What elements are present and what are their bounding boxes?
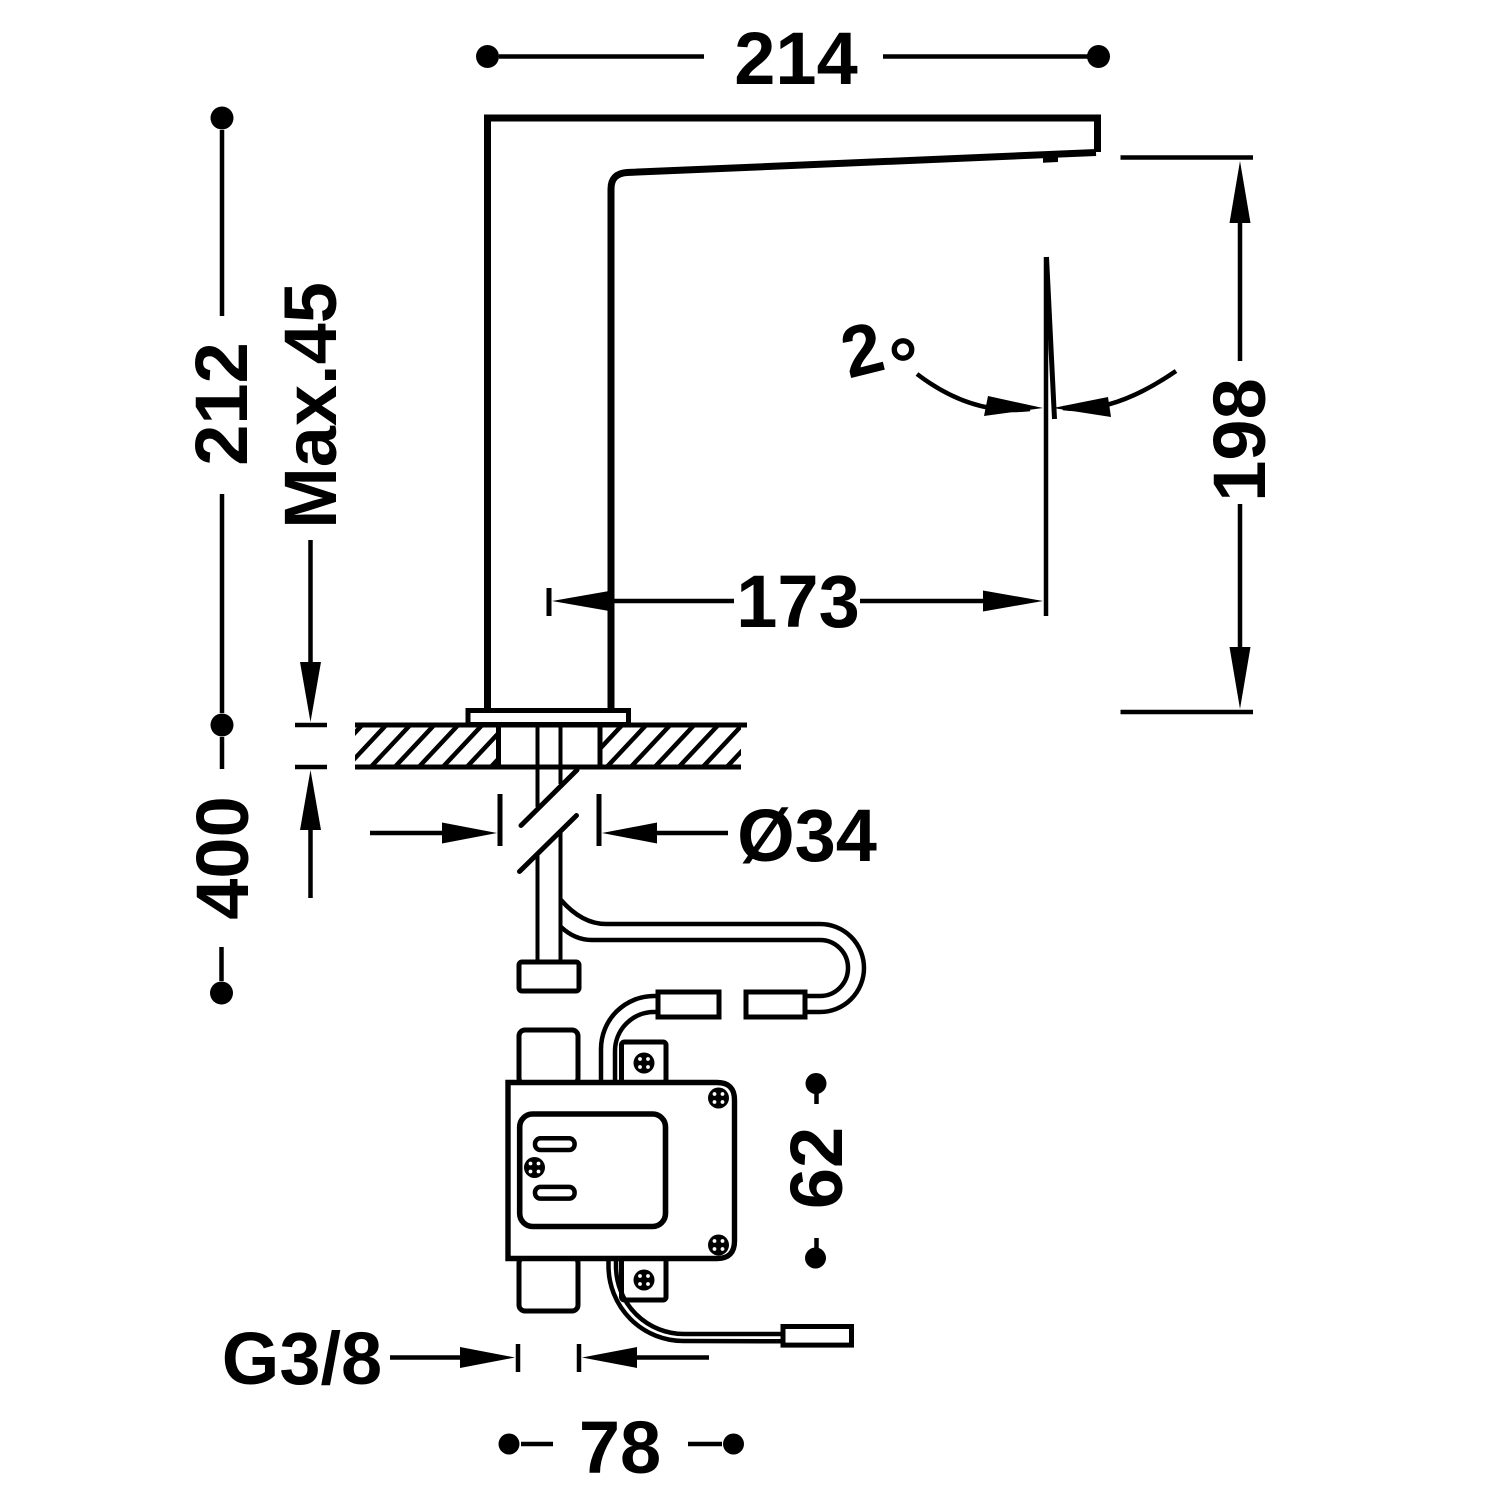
bottom hose from box <box>609 1258 789 1341</box>
angle arc right <box>1063 371 1176 409</box>
svg-text:G3/8: G3/8 <box>222 1317 382 1400</box>
svg-text:Max.45: Max.45 <box>269 282 352 529</box>
countertop bottom line <box>355 765 741 770</box>
svg-text:198: 198 <box>1198 378 1281 501</box>
supply pipe G3/8 rod <box>538 725 561 962</box>
dimension 212 left <box>180 107 263 737</box>
dimension 78 <box>499 1406 745 1489</box>
angle arc right arrowhead <box>1053 397 1111 417</box>
2 deg degree ring <box>894 341 911 358</box>
svg-text:78: 78 <box>579 1406 661 1489</box>
sensor hose to U-turn <box>561 900 864 1012</box>
pipe segment above control box <box>519 1030 578 1084</box>
nut on pipe <box>519 962 579 991</box>
hose connector left <box>658 992 719 1017</box>
dimension dia 34 <box>370 794 877 877</box>
control box body <box>508 1083 735 1259</box>
countertop hatch left block <box>320 722 533 770</box>
faucet base flange <box>468 711 629 725</box>
countertop hole left edge <box>496 725 501 767</box>
svg-text:400: 400 <box>181 796 264 919</box>
countertop hole right edge <box>598 725 603 767</box>
countertop top line <box>355 723 747 728</box>
top mounting bracket <box>622 1042 667 1084</box>
dimension 400 <box>181 737 264 1005</box>
svg-text:Ø34: Ø34 <box>737 794 877 877</box>
svg-text:173: 173 <box>736 560 859 643</box>
aerator on spout underside <box>1043 156 1058 163</box>
water stream needle vertical <box>1044 257 1049 616</box>
svg-text:214: 214 <box>734 17 857 100</box>
socket slot upper <box>535 1138 575 1150</box>
control box screw top right <box>708 1088 729 1109</box>
pipe segment below control box <box>519 1257 578 1311</box>
bottom hose connector <box>783 1327 852 1346</box>
bottom mounting bracket <box>622 1257 667 1300</box>
angle arc left <box>917 374 1030 410</box>
control box screw bottom right <box>708 1235 729 1256</box>
socket slot lower <box>535 1187 575 1199</box>
bottom bracket screw <box>634 1270 655 1291</box>
faucet body outline <box>488 118 1098 714</box>
angle arc left arrowhead <box>984 396 1043 416</box>
hose from connector down to control box <box>601 996 658 1082</box>
countertop hatch right block <box>580 722 769 770</box>
pipe break slash upper <box>521 770 577 826</box>
dimension 214 top <box>476 17 1110 100</box>
svg-text:212: 212 <box>180 342 263 465</box>
socket ground hole <box>524 1157 545 1178</box>
pipe break slash lower <box>520 816 577 872</box>
hose connector right <box>746 992 805 1017</box>
dimension Max.45 <box>269 282 352 898</box>
dimension 173 <box>549 560 1043 643</box>
svg-text:62: 62 <box>775 1127 858 1209</box>
dimension G3/8 <box>222 1317 709 1400</box>
dimension 198 right <box>1121 158 1282 713</box>
top bracket screw <box>634 1053 655 1074</box>
control box socket panel <box>520 1114 666 1227</box>
water stream needle tilted 2 deg <box>1047 257 1055 419</box>
dimension 62 <box>775 1073 858 1269</box>
